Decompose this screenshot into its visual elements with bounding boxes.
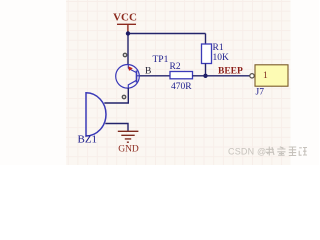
resistor R2 bbox=[170, 62, 193, 92]
svg-text:TP1: TP1 bbox=[153, 55, 169, 65]
svg-text:J7: J7 bbox=[256, 88, 265, 98]
pin number mark (grey) top bbox=[123, 53, 126, 56]
svg-text:BZ1: BZ1 bbox=[78, 134, 98, 146]
wire base to R2 bbox=[139, 75, 170, 77]
wire VCC junction to R1 (top horizontal) bbox=[128, 33, 206, 35]
wire transistor emitter down and left to buzzer bbox=[104, 88, 128, 103]
wire buzzer bottom pin to GND bbox=[105, 124, 128, 132]
svg-text:CSDN @: CSDN @ bbox=[228, 147, 266, 157]
wire R2 to J7 pin bbox=[193, 75, 251, 77]
svg-text:VCC: VCC bbox=[113, 12, 137, 24]
svg-text:1: 1 bbox=[263, 71, 268, 81]
wire R1 bottom to BEEP node bbox=[205, 64, 207, 76]
power symbol VCC bbox=[113, 12, 137, 34]
svg-text:R1: R1 bbox=[213, 43, 224, 53]
watermark CSDN @我爱笔记 bbox=[228, 147, 307, 157]
ground GND bbox=[118, 131, 139, 154]
resistor R1 bbox=[202, 43, 230, 64]
transistor TP1 (PNP) bbox=[116, 53, 169, 98]
sheet background bbox=[0, 0, 319, 165]
svg-text:GND: GND bbox=[118, 145, 139, 155]
svg-text:B: B bbox=[145, 67, 151, 77]
svg-text:R2: R2 bbox=[170, 62, 181, 72]
wire VCC junction down to transistor collector bbox=[127, 34, 129, 65]
wire down to R1 top bbox=[205, 34, 207, 45]
buzzer BZ1 bbox=[78, 93, 107, 146]
svg-text:10K: 10K bbox=[213, 53, 230, 63]
junction dot at BEEP node bbox=[203, 74, 207, 78]
connector J7 bbox=[250, 65, 288, 98]
svg-text:470R: 470R bbox=[171, 82, 192, 92]
svg-text:BEEP: BEEP bbox=[218, 67, 243, 77]
emitter arrow (red) bbox=[128, 66, 133, 71]
pin number mark (grey) bottom bbox=[122, 95, 125, 98]
junction dot at VCC node bbox=[126, 31, 130, 35]
